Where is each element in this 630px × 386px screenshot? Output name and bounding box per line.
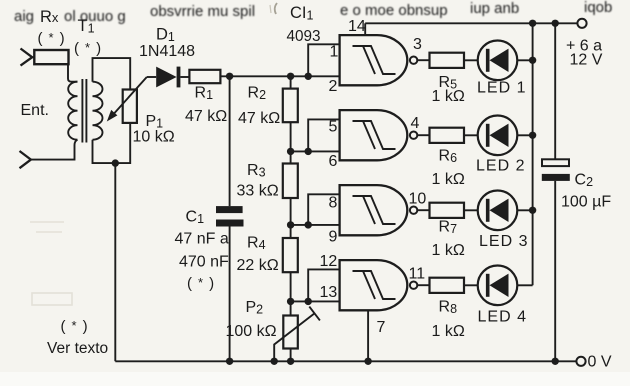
LED 4 <box>464 266 533 306</box>
op-amp U1B nand gate 2 <box>340 110 430 160</box>
gate 2 input bracket pins 5-6 <box>308 119 339 151</box>
LED 3 <box>464 191 533 231</box>
wire 0V bottom rail <box>115 360 576 362</box>
svg-text:ol ouuo g: ol ouuo g <box>64 8 126 25</box>
svg-text:( * ): ( * ) <box>74 40 102 57</box>
wire left drop to 0V rail <box>114 163 116 361</box>
svg-text:100 kΩ: 100 kΩ <box>226 323 277 340</box>
svg-text:4: 4 <box>411 115 420 132</box>
svg-text:R2: R2 <box>248 85 267 103</box>
capacitor C2 <box>542 159 569 166</box>
potentiometer P2 wiper <box>274 307 320 362</box>
gate 4 input bracket pins 12-13 <box>308 269 339 301</box>
wire LED anode rail <box>532 23 534 285</box>
svg-text:obsvrrie mu spil: obsvrrie mu spil <box>150 3 255 20</box>
resistor R7 <box>430 203 465 218</box>
wire +V top rail <box>365 22 577 24</box>
resistor Rx <box>34 50 68 64</box>
wire T1 primary to bottom terminal <box>31 140 78 160</box>
diode D1 <box>156 67 176 88</box>
wire node C to gate 3 <box>291 224 340 226</box>
resistor R4 <box>283 238 298 272</box>
resistor R1 <box>189 70 220 83</box>
wire C2 bottom <box>554 181 556 361</box>
terminal 0V <box>576 357 585 366</box>
svg-text:1 kΩ: 1 kΩ <box>432 88 465 105</box>
resistor R2 <box>283 89 298 123</box>
node LED rail junction dots <box>529 57 536 64</box>
wire Rx to T1 primary <box>68 64 78 82</box>
node A junction dots <box>226 73 233 80</box>
svg-text:R7: R7 <box>439 219 458 237</box>
svg-text:6: 6 <box>329 153 338 170</box>
svg-text:47 kΩ: 47 kΩ <box>238 110 280 127</box>
svg-text:Ent.: Ent. <box>21 102 49 119</box>
node bottom rail junction dots <box>226 358 233 365</box>
node C junction dots <box>287 221 294 228</box>
pin 14 wire <box>364 23 366 35</box>
svg-text:9: 9 <box>329 229 338 246</box>
wire R4 to node D <box>290 272 292 315</box>
node D junction dots <box>287 298 294 305</box>
node junction T1/P1 bottom <box>112 159 119 166</box>
svg-text:11: 11 <box>409 266 426 283</box>
potentiometer P1 wiper arrow <box>113 77 147 115</box>
gate 3 input bracket pins 8-9 <box>308 194 339 225</box>
svg-text:R8: R8 <box>439 299 458 317</box>
gate 1 input bracket pins 1-2 <box>308 44 339 76</box>
svg-text:LED 1: LED 1 <box>477 80 526 97</box>
potentiometer P1 body <box>123 90 137 123</box>
wire R2 to node B <box>290 122 292 163</box>
wire node D to gate 4 <box>291 300 340 302</box>
wire C2 top <box>554 23 556 159</box>
svg-text:R6: R6 <box>439 148 458 166</box>
svg-text:4093: 4093 <box>287 28 321 45</box>
terminal +V <box>577 19 586 28</box>
svg-text:P2: P2 <box>246 299 264 317</box>
svg-text:10 kΩ: 10 kΩ <box>133 129 175 146</box>
input terminal bottom <box>20 151 31 168</box>
svg-text:33 kΩ: 33 kΩ <box>237 183 279 200</box>
wire terminal to Rx <box>32 56 34 58</box>
wire node A down to C1 <box>229 76 231 206</box>
svg-text:( * ): ( * ) <box>187 275 215 292</box>
svg-text:C2: C2 <box>575 172 594 190</box>
op-amp U1D nand gate 4 <box>340 260 430 310</box>
svg-text:13: 13 <box>320 284 338 301</box>
svg-text:iqob: iqob <box>584 0 612 16</box>
resistor R6 <box>430 128 465 143</box>
svg-text:LED 3: LED 3 <box>479 233 528 250</box>
svg-text:14: 14 <box>348 18 366 35</box>
svg-text:10: 10 <box>409 191 427 208</box>
svg-text:1 kΩ: 1 kΩ <box>432 323 465 340</box>
svg-text:Ver texto: Ver texto <box>47 340 108 357</box>
op-amp U1C nand gate 3 <box>340 185 430 235</box>
svg-text:R1: R1 <box>195 85 214 103</box>
resistor R8 <box>430 278 465 293</box>
resistor R5 <box>430 53 465 68</box>
svg-text:1: 1 <box>330 44 339 61</box>
pin 7 wire <box>367 311 369 362</box>
wire node B to gate 2 <box>291 150 340 152</box>
wire wiper to D1 <box>147 76 156 78</box>
wire R3 to node C <box>290 198 292 238</box>
capacitor C1 <box>216 206 243 213</box>
wire chain node A to R2 <box>290 76 292 88</box>
svg-text:2: 2 <box>329 78 338 95</box>
svg-text:8: 8 <box>329 195 338 212</box>
svg-text:R4: R4 <box>247 235 266 253</box>
svg-text:12: 12 <box>320 253 338 270</box>
svg-text:Rx: Rx <box>40 8 59 26</box>
svg-text:47 kΩ: 47 kΩ <box>185 108 227 125</box>
LED 1 <box>464 41 533 81</box>
wire T1 secondary bottom to P1 bottom <box>93 123 131 163</box>
wire T1 secondary top to P1 top <box>93 58 131 89</box>
transformer T1 primary winding <box>68 82 77 140</box>
svg-text:aig: aig <box>14 8 34 25</box>
wire R1 to gate input node A <box>220 75 339 77</box>
svg-text:3: 3 <box>413 36 422 53</box>
svg-text:1N4148: 1N4148 <box>139 43 195 60</box>
svg-text:7: 7 <box>377 319 386 336</box>
wire P2 to 0V rail <box>290 349 292 362</box>
wire C1 to 0V rail <box>229 227 231 362</box>
SECTION:GHOSTS <box>0 0 1 1</box>
LED 2 <box>464 116 533 156</box>
svg-text:LED 2: LED 2 <box>476 158 525 175</box>
svg-text:C1: C1 <box>186 209 205 227</box>
svg-text:R3: R3 <box>247 162 266 180</box>
op-amp U1A nand gate 1 <box>340 35 430 85</box>
resistor R3 <box>283 164 298 199</box>
svg-text:1 kΩ: 1 kΩ <box>432 242 465 259</box>
svg-text:LED 4: LED 4 <box>478 309 527 326</box>
input terminal top <box>21 49 33 66</box>
wire D1 to R1 <box>180 76 189 78</box>
node B junction dots <box>287 148 294 155</box>
transformer T1 secondary winding <box>93 82 103 140</box>
transformer T1 core <box>82 79 86 143</box>
svg-text:1 kΩ: 1 kΩ <box>432 171 465 188</box>
svg-text:22 kΩ: 22 kΩ <box>237 257 279 274</box>
svg-text:e o moe obnsup: e o moe obnsup <box>340 2 448 19</box>
svg-text:12 V: 12 V <box>570 52 603 69</box>
svg-text:100 µF: 100 µF <box>561 194 611 211</box>
svg-text:47 nF a: 47 nF a <box>175 231 229 248</box>
node pin7 junction <box>364 358 371 365</box>
svg-text:( * ): ( * ) <box>61 318 89 335</box>
svg-text:( * ): ( * ) <box>38 30 66 47</box>
svg-text:iup anb: iup anb <box>470 0 519 17</box>
svg-text:470 nF: 470 nF <box>179 254 229 271</box>
svg-text:0 V: 0 V <box>588 354 612 371</box>
node top rail junction dots <box>529 20 536 27</box>
svg-text:5: 5 <box>329 119 338 136</box>
potentiometer P2 body <box>283 316 298 349</box>
